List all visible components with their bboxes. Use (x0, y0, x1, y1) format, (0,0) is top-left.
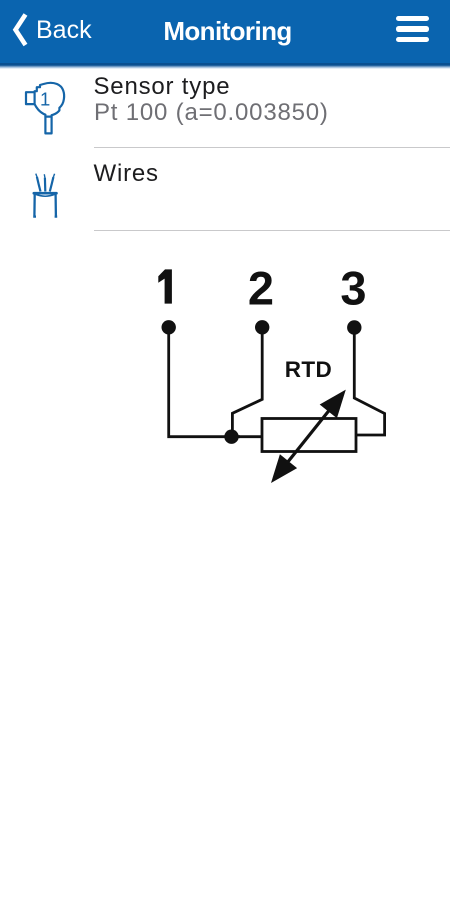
RTD wiring diagram (130, 255, 410, 500)
sensor type value (94, 101, 329, 125)
wire from terminal 2 to junction (232, 330, 262, 437)
separator 2 (94, 230, 450, 231)
separator 1 (94, 147, 450, 148)
wire from terminal 3 to resistor right (354, 330, 384, 435)
wire from terminal 1 to junction (169, 330, 240, 437)
hamburger menu (396, 16, 429, 21)
wires icon (30, 170, 60, 220)
terminal dot 1 (162, 320, 176, 334)
header bar (0, 0, 450, 63)
svg-text:1: 1 (40, 89, 50, 110)
title Monitoring (0, 18, 450, 44)
back label (36, 18, 92, 43)
svg-text:2: 2 (248, 261, 274, 314)
variable-resistance arrow shaft (277, 397, 340, 476)
wires label (94, 162, 159, 186)
junction dot (224, 430, 238, 444)
sensor type icon (22, 80, 68, 138)
svg-text:3: 3 (340, 261, 366, 314)
wire junction to resistor left (232, 435, 263, 438)
header bottom edge (0, 63, 450, 69)
svg-text:RTD: RTD (285, 357, 332, 382)
back chevron (11, 11, 31, 49)
arrowhead lower (271, 454, 297, 483)
resistor body RTD (262, 419, 356, 452)
arrowhead upper (320, 390, 346, 419)
sensor type label (94, 75, 231, 99)
terminal label 1 (158, 269, 172, 303)
terminal dot 3 (347, 320, 361, 334)
terminal dot 2 (255, 320, 269, 334)
